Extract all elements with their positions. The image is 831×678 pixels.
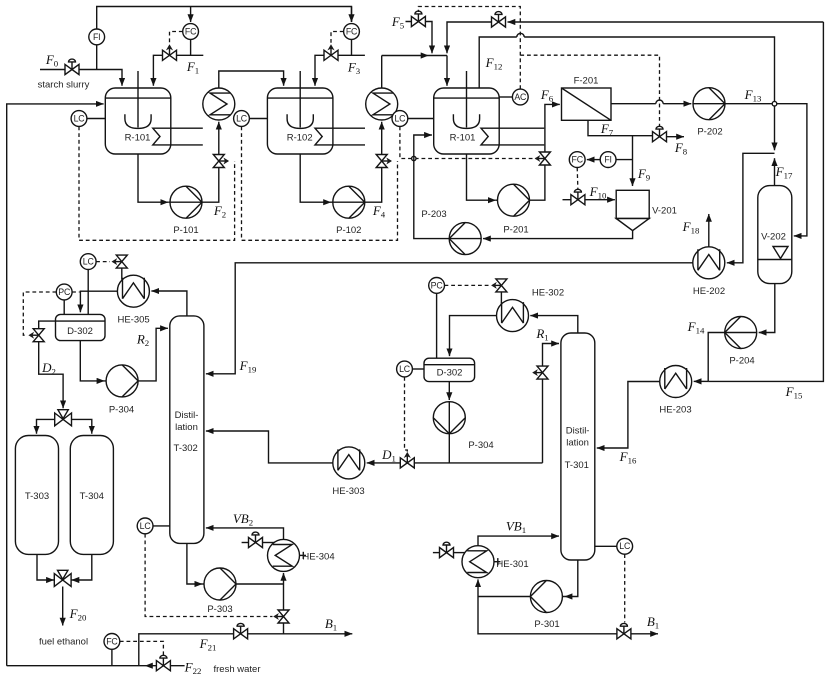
wire: F3 feed into R-102	[315, 55, 365, 86]
heat exchanger HE-305 condenser	[117, 275, 149, 325]
reactor R-101b (third fermenter, labelled R-101)	[434, 71, 545, 154]
svg-text:T-302: T-302	[174, 443, 198, 454]
svg-text:FC: FC	[185, 26, 197, 36]
svg-text:T-303: T-303	[25, 491, 49, 502]
valve F21	[234, 623, 248, 639]
wire: F18 vent from HE-202	[708, 214, 710, 247]
valve F0	[65, 59, 79, 75]
instrument PC2 pressure controller D-302b	[429, 278, 445, 359]
wire: P-201 discharge F6 up to filter F-201	[530, 104, 560, 200]
vessel V-201 (yeast settler)	[616, 190, 677, 230]
valve F3	[324, 44, 338, 60]
wire: VB2 vapor return into T-302	[206, 528, 284, 540]
wire: VB1 vapor return into T-301	[478, 536, 559, 546]
instrument FC4 flow controller fresh water	[104, 634, 120, 666]
wire: F16 from HE-203 into T-301	[597, 382, 660, 449]
svg-text:R-102: R-102	[287, 133, 313, 144]
pump P-301	[530, 581, 562, 631]
instrument LC1 level controller R-101	[71, 111, 105, 127]
svg-text:T-304: T-304	[80, 491, 104, 502]
instrument AC composition controller	[499, 89, 528, 105]
wire: dashed LC4 to HE-305 coolant valve	[96, 261, 110, 263]
valve on P-201 discharge	[535, 152, 551, 165]
instrument LC2 level controller R-102	[234, 111, 268, 127]
wire: D2 distillate line from D-302a to sieve beds	[39, 321, 63, 408]
svg-text:P-102: P-102	[336, 225, 361, 236]
svg-text:FC: FC	[106, 636, 118, 646]
svg-text:LC: LC	[619, 541, 631, 551]
svg-text:P-202: P-202	[697, 127, 722, 138]
wire: F-201 permeate to P-202 with hop over dashed	[611, 100, 691, 104]
valve HE-305 coolant	[112, 255, 128, 279]
wire: dashed LC5 to D1 valve	[405, 377, 408, 453]
wire: T-304 bottoms to product valve	[72, 554, 92, 580]
wire: P-101 discharge up to HE-1	[202, 122, 219, 202]
pump P-203	[421, 209, 481, 255]
wire: T-302 bottoms to P-303	[187, 543, 236, 584]
wire: V-201 bottoms to P-203	[483, 231, 633, 239]
svg-text:AC: AC	[514, 92, 527, 102]
instrument FI flow indicator	[89, 29, 105, 45]
instrument LC7 level controller T-301	[595, 538, 633, 554]
wire: FC2 riser to F3 line	[351, 39, 353, 55]
wire: F1 feed into R-101	[153, 55, 203, 86]
wire: HE-302 condensate into D-302b	[450, 316, 497, 357]
heat exchanger HE-2 (broth heater 2)	[366, 88, 398, 120]
svg-text:LC: LC	[140, 521, 152, 531]
reactor R-101 (first fermenter)	[105, 71, 203, 154]
wire: F0 starch slurry feed line into R-101	[40, 45, 122, 86]
instrument PC1 pressure controller D-302a	[56, 284, 79, 314]
wire: F9 down to V-201	[632, 136, 634, 186]
instrument LC4 level controller D-302a	[80, 254, 96, 270]
wire: P-102 discharge up to HE-2	[365, 122, 382, 202]
wire: R2 reflux into T-302	[138, 328, 168, 381]
wire: 3-way valve to T-304	[72, 419, 92, 433]
wire: bottoms down through LC valve	[283, 584, 285, 634]
svg-text:fuel ethanol: fuel ethanol	[39, 637, 88, 648]
vessel T-304 molecular sieve bed	[70, 436, 113, 555]
valve HE-302 coolant	[491, 279, 507, 304]
valve HE-301 steam	[433, 542, 465, 558]
valve T-302 bottoms	[273, 610, 289, 623]
wire: dashed PC1 to D2 valve	[23, 292, 56, 335]
svg-text:R-101: R-101	[125, 133, 151, 144]
wire: T-303 bottoms to product valve	[37, 554, 54, 580]
wire: R-101b outlet to P-201	[467, 154, 530, 200]
pump P-304b	[433, 402, 493, 451]
svg-text:P-304: P-304	[109, 405, 134, 416]
wire: F10 water feed into V-201	[563, 199, 615, 201]
valve F5	[411, 11, 425, 27]
svg-text:V-201: V-201	[652, 206, 677, 217]
pump P-201	[498, 184, 530, 235]
wire: combined stream to HE-202	[727, 153, 775, 262]
heat exchanger HE-203	[659, 366, 691, 416]
wire: HE-303 outlet feed into T-302	[206, 431, 333, 463]
valve F8 purge	[653, 126, 667, 142]
svg-text:HE-303: HE-303	[332, 486, 364, 497]
svg-text:FC: FC	[346, 26, 358, 36]
heat exchanger HE-302 condenser	[497, 288, 565, 332]
svg-text:R-101: R-101	[450, 133, 476, 144]
instrument LC3 level controller R-101b	[392, 111, 434, 127]
svg-text:HE-203: HE-203	[659, 405, 691, 416]
svg-text:Distil-: Distil-	[175, 410, 199, 421]
instrument LC5 level controller D-302b	[397, 361, 424, 377]
wire: HE-2 outlet to mixing junction before R-101b	[382, 56, 447, 89]
wire: D-302a bottoms to P-304a	[80, 341, 138, 381]
valve on fermenter recycle line	[492, 12, 506, 28]
instrument FC2 flow controller R-102	[344, 24, 360, 40]
valve 3-way product fuel ethanol	[54, 570, 71, 586]
wire: P-204 discharge F14 down to F15 header	[708, 333, 725, 382]
wire: dashed AC to F5 valve over the top	[418, 7, 520, 90]
svg-text:P-301: P-301	[534, 619, 559, 630]
drum D-302a reflux drum T-302	[56, 314, 106, 340]
wire: R-102 outlet to P-102	[300, 154, 365, 202]
pump P-101	[170, 186, 202, 236]
pump P-303	[204, 568, 236, 615]
svg-text:LC: LC	[83, 257, 95, 267]
svg-text:P-201: P-201	[503, 225, 528, 236]
svg-text:LC: LC	[394, 113, 406, 123]
pump P-204	[725, 317, 757, 367]
wire: dashed FC2 to F3 valve	[331, 32, 344, 45]
node: junction on LC3 signal path	[412, 156, 416, 160]
wire: LC4 tap to D-302a	[87, 270, 89, 315]
valve D1	[400, 452, 414, 468]
wire: P-301 discharge to HE-301 junction	[478, 596, 530, 598]
wire: B1 bottoms out T-302	[284, 633, 353, 635]
wire: T-301 bottoms to P-301	[530, 560, 577, 597]
svg-text:P-304: P-304	[468, 440, 493, 451]
heat exchanger HE-1 (broth heater 1)	[203, 88, 235, 120]
wire: riser into HE-304	[283, 573, 285, 584]
wire: HE-1 outlet into R-102	[219, 71, 284, 88]
heat exchanger HE-202 condenser	[693, 247, 725, 297]
wire: dashed AC branch to F8 purge valve	[520, 55, 659, 127]
vessel V-202 (flash drum)	[758, 186, 792, 284]
wire: dashed FC4 to F22 valve	[120, 641, 164, 656]
wire: dashed PC2 to HE-302 coolant valve	[445, 284, 490, 286]
wire: P-304b discharge header	[448, 434, 450, 463]
pump P-202	[693, 88, 725, 138]
wire: F22 fresh water line	[7, 665, 185, 667]
svg-text:HE-302: HE-302	[532, 288, 564, 299]
wire: water recycle from bottom line up left edge into R-101	[7, 104, 104, 666]
svg-text:lation: lation	[566, 438, 589, 449]
reboiler HE-301	[462, 546, 529, 578]
wire: D-302b bottoms into P-304b	[448, 382, 450, 400]
wire: F7 retentate line from F-201 bottom	[588, 120, 653, 135]
svg-text:fresh water: fresh water	[214, 664, 261, 675]
svg-text:HE-301: HE-301	[496, 559, 528, 570]
wire: T-302 overhead vapor to HE-305	[151, 291, 187, 316]
filter F-201	[562, 76, 612, 121]
pump P-102	[333, 186, 365, 236]
pump P-304a	[106, 365, 138, 416]
wire: F21 recycle water line	[139, 634, 284, 666]
svg-text:HE-305: HE-305	[117, 315, 149, 326]
instrument FC1 flow controller	[183, 24, 199, 40]
valve R1 reflux	[532, 366, 548, 379]
svg-text:FI: FI	[93, 32, 100, 42]
wire: recycle line from right through valve down to junction	[447, 22, 823, 53]
wire: riser into HE-301	[477, 579, 479, 596]
instrument FI2 flow indicator on F9	[600, 152, 632, 168]
svg-text:PC: PC	[58, 287, 71, 297]
svg-text:FC: FC	[572, 155, 584, 165]
svg-text:D-302: D-302	[437, 368, 463, 379]
valve F1	[163, 44, 177, 60]
valve F22	[156, 655, 170, 671]
valve D2	[28, 329, 44, 342]
svg-text:LC: LC	[399, 364, 411, 374]
svg-text:P-203: P-203	[421, 209, 446, 220]
wire: F8 purge out	[666, 136, 684, 138]
column T-302 distillation	[170, 316, 204, 544]
wire: controller signal top header FI to FC1/FC2	[97, 7, 352, 30]
svg-text:FI: FI	[604, 155, 611, 165]
valve on P-102 discharge	[376, 155, 392, 168]
wire: dashed LC1 control loop to P-101 discharge valve	[79, 127, 235, 241]
column T-301 distillation	[561, 333, 595, 560]
valve on P-101 discharge	[213, 155, 229, 168]
wire: FC1 riser to F1 line	[190, 39, 192, 55]
reactor R-102 (second fermenter)	[267, 71, 365, 154]
svg-text:HE-304: HE-304	[302, 552, 334, 563]
wire: dashed LC7 to B1 valve	[624, 554, 626, 622]
reboiler HE-304	[268, 539, 335, 571]
heat exchanger HE-303	[332, 447, 364, 497]
instrument LC6 level controller T-302	[137, 518, 170, 534]
instrument FC3 flow controller F10	[569, 152, 600, 168]
wire: HE-305 condensate into D-302a	[80, 291, 117, 312]
svg-text:V-202: V-202	[761, 232, 786, 243]
svg-text:T-301: T-301	[565, 460, 589, 471]
svg-text:lation: lation	[175, 422, 198, 433]
wire: P-303 discharge to reboiler junction	[236, 583, 284, 585]
wire: dashed LC3 control loop to P-201 discharge valve	[400, 127, 536, 159]
wire: F19 from HE-202 to T-302 feed	[206, 263, 693, 374]
wire: 3-way valve to T-303	[37, 419, 55, 433]
svg-text:LC: LC	[236, 113, 248, 123]
wire: B1 bottoms out T-301	[478, 597, 658, 634]
svg-text:Distil-: Distil-	[566, 426, 590, 437]
svg-text:D-302: D-302	[67, 326, 93, 337]
wire: F5 feed through valve down to junction	[406, 22, 433, 54]
wire: dashed LC2 control loop to P-102 discharge valve	[242, 127, 398, 241]
wire: F15 recycle header up right edge	[708, 22, 823, 381]
wire: R1 reflux riser into T-301	[543, 344, 560, 463]
wire: dashed FC3 to F10 valve	[576, 168, 579, 191]
wire: F17 vapor from V-202 up to junction	[774, 158, 776, 185]
wire: dashed FC1 to F1 valve	[170, 32, 183, 45]
wire: V-202 bottoms to P-204	[759, 284, 775, 333]
svg-text:starch slurry: starch slurry	[38, 80, 90, 91]
wire: R-101 outlet to P-101	[138, 154, 202, 202]
wire: P-203 yeast recycle into R-101b	[414, 135, 449, 239]
valve 3-way to sieve beds	[55, 410, 72, 426]
drum D-302b reflux drum T-301	[424, 358, 475, 381]
svg-text:F-201: F-201	[574, 76, 599, 87]
valve T-301 bottoms B1	[617, 623, 631, 639]
valve F10	[571, 189, 585, 205]
valve HE-304 steam	[242, 532, 274, 548]
wire: F15 branch to HE-203	[694, 380, 709, 382]
wire: D1 line to HE-303	[367, 462, 543, 464]
vessel T-303 molecular sieve bed	[15, 436, 58, 555]
svg-text:LC: LC	[74, 113, 86, 123]
wire: combined feed into R-101b	[446, 56, 448, 86]
node: F13 branch junction	[772, 101, 777, 106]
svg-text:P-101: P-101	[173, 225, 198, 236]
svg-text:P-303: P-303	[207, 604, 232, 615]
wire: dashed LC6 to bottoms valve	[145, 534, 272, 617]
wire: F12 vapor line from R-101b to F17 junction	[479, 33, 774, 150]
svg-text:HE-202: HE-202	[693, 286, 725, 297]
svg-text:PC: PC	[431, 280, 444, 290]
wire: T-301 overhead vapor to HE-302	[530, 316, 578, 333]
svg-text:P-204: P-204	[729, 356, 754, 367]
wire: F20 fuel ethanol product out	[62, 587, 64, 626]
wire: F13 from P-202 to V-202 via right riser	[725, 104, 807, 236]
